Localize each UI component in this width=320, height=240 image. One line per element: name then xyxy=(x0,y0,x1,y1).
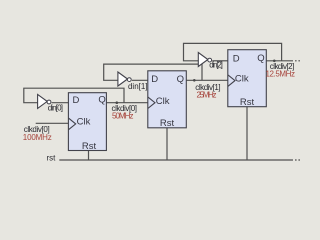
U2 clock chevron xyxy=(148,97,155,109)
svg-text:D: D xyxy=(73,95,80,106)
svg-text:Rst: Rst xyxy=(160,118,175,129)
wire: FF3 feedback Q to inverter din[2] xyxy=(184,43,282,60)
svg-text:Rst: Rst xyxy=(240,97,255,108)
wire: rst net horizontal xyxy=(59,159,293,161)
svg-text:Q: Q xyxy=(98,95,105,106)
wire: FF2 feedback Q to inverter din[1] xyxy=(104,64,202,80)
svg-text:din[0]: din[0] xyxy=(48,104,63,113)
wire: FF3 Q output (net clkdiv[2]) xyxy=(266,60,293,62)
wire: clkdiv[2] continuation dots xyxy=(295,60,301,62)
U1 clock chevron xyxy=(69,118,76,130)
wire: FF2 Q to FF3 Clk (net clkdiv[1]) xyxy=(186,79,228,81)
svg-text:100MHz: 100MHz xyxy=(23,133,52,142)
wire: FF1 Rst stub xyxy=(88,151,90,161)
svg-text:Clk: Clk xyxy=(77,117,91,128)
node dot on clkdiv[1] wire xyxy=(193,79,196,82)
wire: FF1 Q to FF2 Clk (net clkdiv[0]) xyxy=(106,102,147,104)
svg-text:Clk: Clk xyxy=(235,74,249,85)
wire: clk input to FF1 Clk xyxy=(36,122,69,124)
wire: FF3 Rst stub xyxy=(246,107,248,160)
wire: FF1 feedback Q to inverter din[0] xyxy=(24,88,124,103)
inverter feeding FF2 D xyxy=(118,72,128,86)
svg-text:12.5MHz: 12.5MHz xyxy=(266,70,296,79)
flip-flop U3 box xyxy=(228,50,266,107)
flip-flop U2 box xyxy=(148,71,187,128)
svg-text:Q: Q xyxy=(177,74,184,85)
svg-text:Rst: Rst xyxy=(82,141,97,152)
svg-text:din[1]: din[1] xyxy=(128,82,148,91)
svg-text:25MHz: 25MHz xyxy=(197,91,217,100)
svg-text:50MHz: 50MHz xyxy=(112,111,134,120)
svg-text:D: D xyxy=(151,74,158,85)
svg-text:Clk: Clk xyxy=(156,96,170,107)
inverter feeding FF1 D xyxy=(38,94,48,108)
flip-flop U1 box xyxy=(68,93,106,151)
wire: FF2 Rst stub xyxy=(166,128,168,160)
wire: inverter1 output to FF1 D xyxy=(52,102,69,104)
svg-text:Q: Q xyxy=(257,53,264,64)
svg-text:rst: rst xyxy=(47,154,57,163)
inverter feeding FF3 D xyxy=(198,53,208,67)
svg-text:D: D xyxy=(233,53,240,64)
wire: inverter3 output to FF3 D xyxy=(212,60,228,62)
node dot on clkdiv[0] wire xyxy=(116,101,119,104)
U3 clock chevron xyxy=(228,75,235,87)
node dot on clkdiv[2] wire xyxy=(273,60,276,63)
wire: inverter2 output to FF2 D xyxy=(132,79,148,81)
wire: rst continuation dots xyxy=(295,159,301,161)
svg-text:din[2]: din[2] xyxy=(209,60,223,69)
